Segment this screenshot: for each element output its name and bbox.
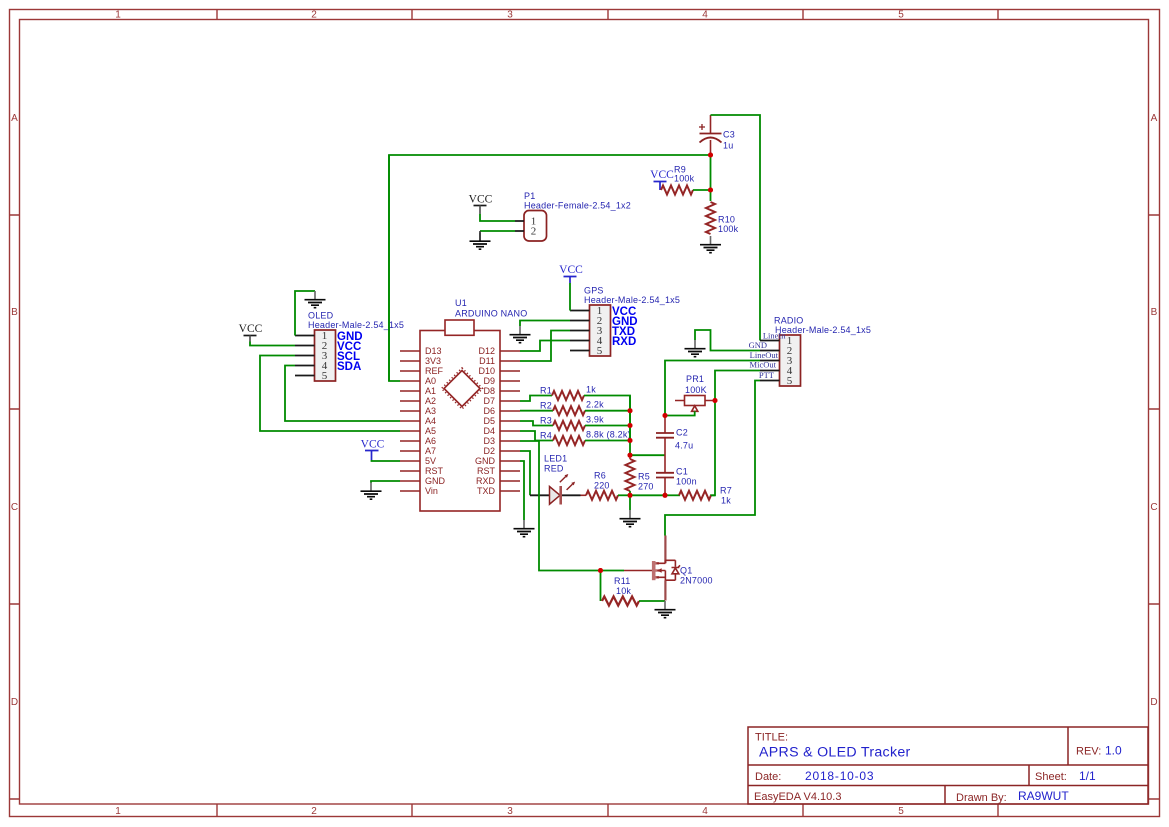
svg-text:GND: GND bbox=[425, 476, 446, 486]
svg-text:1: 1 bbox=[115, 10, 121, 21]
resistor R2 bbox=[553, 406, 585, 415]
capacitor C3 bbox=[699, 115, 735, 155]
svg-text:2: 2 bbox=[531, 226, 537, 238]
svg-text:C: C bbox=[1150, 502, 1157, 513]
svg-text:RA9WUT: RA9WUT bbox=[1018, 789, 1069, 803]
svg-text:2.2k: 2.2k bbox=[586, 400, 604, 410]
junction gate/R11 node bbox=[598, 568, 603, 573]
U1 crystal/IC diamond bbox=[442, 368, 483, 409]
svg-text:D13: D13 bbox=[425, 346, 442, 356]
svg-text:10k: 10k bbox=[616, 586, 631, 596]
wire U1 left GND bbox=[371, 481, 400, 483]
wire D6 to R2 bbox=[520, 410, 553, 412]
wire OLED pin1 to ground bbox=[295, 291, 315, 336]
header P1 bbox=[515, 191, 631, 241]
junction at R9/R10 node bbox=[708, 188, 713, 193]
svg-text:Sheet:: Sheet: bbox=[1035, 771, 1067, 783]
junction C1 bottom bbox=[663, 493, 668, 498]
svg-text:4: 4 bbox=[702, 806, 708, 817]
ground below GPS pin2 bbox=[510, 326, 531, 343]
svg-text:A2: A2 bbox=[425, 396, 436, 406]
ruler ticks left bbox=[10, 215, 20, 799]
svg-text:4: 4 bbox=[702, 10, 708, 21]
svg-text:PR1: PR1 bbox=[686, 374, 704, 384]
svg-text:B: B bbox=[1151, 307, 1158, 318]
svg-text:Header-Male-2.54_1x5: Header-Male-2.54_1x5 bbox=[775, 325, 871, 335]
svg-text:Drawn By:: Drawn By: bbox=[956, 792, 1007, 804]
svg-text:RST: RST bbox=[477, 466, 496, 476]
VCC flag above GPS bbox=[559, 264, 583, 283]
svg-text:R3: R3 bbox=[540, 416, 552, 426]
ground below R10 bbox=[700, 236, 721, 253]
svg-text:220: 220 bbox=[594, 481, 610, 491]
wire OLED pin4 SDA to A4 bbox=[285, 366, 400, 422]
svg-text:RADIO: RADIO bbox=[774, 316, 804, 326]
wire P1 pin1 to VCC bbox=[480, 214, 515, 221]
header RADIO bbox=[760, 316, 871, 388]
svg-text:D: D bbox=[11, 697, 18, 708]
svg-text:GND: GND bbox=[475, 456, 496, 466]
svg-text:RED: RED bbox=[544, 464, 564, 474]
svg-text:3: 3 bbox=[507, 806, 513, 817]
svg-text:VCC: VCC bbox=[559, 264, 583, 276]
potentiometer PR1 bbox=[675, 374, 714, 411]
ground below U1 right GND bbox=[514, 520, 535, 537]
wire R3 to bus node bbox=[585, 411, 630, 426]
wire GPS pin4 RXD to D12 bbox=[520, 341, 570, 352]
wire RADIO pin4 MicOut down to R7 bbox=[710, 371, 760, 496]
junction R5 bottom bbox=[628, 493, 633, 498]
resistor R5 bbox=[626, 455, 654, 495]
title block outline bbox=[748, 727, 1148, 804]
wire RADIO pin3 LineOut down to C2 node bbox=[665, 361, 760, 416]
svg-text:D10: D10 bbox=[478, 366, 495, 376]
svg-text:270: 270 bbox=[638, 482, 654, 492]
wire D4 to R4 bbox=[520, 431, 553, 441]
wire D5 to R3 bbox=[520, 421, 553, 426]
svg-text:R2: R2 bbox=[540, 401, 552, 411]
svg-text:5: 5 bbox=[322, 370, 328, 382]
svg-text:2: 2 bbox=[311, 806, 317, 817]
junction R2 node bbox=[628, 408, 633, 413]
svg-text:ARDUINO NANO: ARDUINO NANO bbox=[455, 309, 527, 319]
svg-text:1u: 1u bbox=[723, 141, 733, 151]
svg-text:2N7000: 2N7000 bbox=[680, 576, 713, 586]
svg-text:A: A bbox=[1151, 113, 1158, 124]
svg-text:1/1: 1/1 bbox=[1079, 769, 1096, 783]
wire R5 top to C1/C2 mid bbox=[630, 454, 665, 456]
ground above OLED bbox=[305, 291, 326, 308]
ruler letters left bbox=[11, 113, 18, 708]
svg-text:R5: R5 bbox=[638, 472, 650, 482]
svg-text:R4: R4 bbox=[540, 431, 552, 441]
VCC flag at P1 (black) bbox=[469, 194, 493, 215]
wire D7 to R1 bbox=[520, 396, 552, 402]
svg-text:5: 5 bbox=[787, 375, 793, 387]
wire C3 top to LineIn riser bbox=[711, 115, 761, 341]
wire bus vertical overdraw bbox=[629, 396, 631, 441]
wire GPS pin3 TXD to D11 bbox=[520, 331, 570, 362]
VCC flag at OLED pin2 (black) bbox=[239, 323, 263, 342]
wire GPS pin1 to VCC bbox=[569, 283, 571, 311]
svg-text:R7: R7 bbox=[720, 486, 732, 496]
svg-text:D4: D4 bbox=[483, 426, 495, 436]
resistor R7 bbox=[679, 491, 711, 500]
svg-text:R10: R10 bbox=[718, 215, 735, 225]
capacitor C2 bbox=[656, 416, 693, 473]
wire R9 to node bbox=[693, 189, 711, 191]
svg-text:A3: A3 bbox=[425, 406, 436, 416]
svg-text:LED1: LED1 bbox=[544, 454, 567, 464]
svg-text:A1: A1 bbox=[425, 386, 436, 396]
wire P1 pin2 to ground bbox=[480, 230, 515, 232]
svg-text:GPS: GPS bbox=[584, 286, 604, 296]
ruler numbers top bbox=[115, 10, 904, 21]
svg-text:C3: C3 bbox=[723, 130, 735, 140]
svg-text:1: 1 bbox=[115, 806, 121, 817]
svg-text:8.8k (8.2k): 8.8k (8.2k) bbox=[586, 430, 631, 440]
svg-text:TXD: TXD bbox=[477, 486, 496, 496]
wire RADIO pin5 PTT down bbox=[665, 381, 760, 536]
wire D3 to Q1 gate bbox=[520, 441, 624, 571]
svg-text:3.9k: 3.9k bbox=[586, 415, 604, 425]
svg-text:A: A bbox=[11, 113, 18, 124]
wire gate node down to R11 bbox=[600, 571, 602, 602]
title block row lines bbox=[748, 727, 1148, 804]
wire OLED pin2 to VCC bbox=[250, 342, 295, 346]
junction R4 node bbox=[628, 438, 633, 443]
resistor R4 bbox=[553, 436, 585, 445]
svg-text:LineIn: LineIn bbox=[763, 330, 786, 340]
svg-text:D6: D6 bbox=[483, 406, 495, 416]
svg-text:D5: D5 bbox=[483, 416, 495, 426]
ruler ticks bottom bbox=[217, 805, 998, 817]
svg-text:5V: 5V bbox=[425, 456, 436, 466]
svg-text:OLED: OLED bbox=[308, 311, 334, 321]
svg-text:Q1: Q1 bbox=[680, 566, 692, 576]
ground below P1 bbox=[479, 231, 481, 241]
wire U1 right GND pin to ground bbox=[520, 461, 524, 520]
svg-text:5: 5 bbox=[597, 345, 603, 357]
header OLED bbox=[295, 311, 404, 383]
wire R4 to bus node bbox=[585, 426, 630, 441]
svg-text:PTT: PTT bbox=[759, 370, 775, 380]
svg-text:3V3: 3V3 bbox=[425, 356, 441, 366]
svg-text:VCC: VCC bbox=[361, 439, 385, 451]
svg-text:Vin: Vin bbox=[425, 486, 438, 496]
wire PR1 wiper to C2 node bbox=[665, 411, 695, 415]
wire R11 to Q1 source bbox=[639, 600, 665, 602]
ground at U1 left GND bbox=[361, 483, 382, 500]
svg-text:2018-10-03: 2018-10-03 bbox=[805, 769, 874, 783]
transistor Q1 2N7000 bbox=[624, 536, 713, 601]
svg-text:D7: D7 bbox=[483, 396, 495, 406]
resistor R9 bbox=[661, 186, 693, 195]
junction PR1 right to MicOut riser bbox=[713, 398, 718, 403]
svg-text:D2: D2 bbox=[483, 446, 495, 456]
wire OLED pin3 SCL to A5 bbox=[260, 356, 400, 432]
svg-text:EasyEDA V4.10.3: EasyEDA V4.10.3 bbox=[754, 791, 841, 803]
svg-text:4.7u: 4.7u bbox=[675, 441, 693, 451]
svg-text:B: B bbox=[11, 307, 18, 318]
wire C1 bottom to R7 bbox=[665, 494, 680, 496]
ruler letters right bbox=[1150, 113, 1157, 708]
svg-text:Date:: Date: bbox=[755, 771, 781, 783]
svg-text:A4: A4 bbox=[425, 416, 436, 426]
svg-text:100K: 100K bbox=[685, 385, 707, 395]
header GPS bbox=[570, 286, 680, 358]
wire A0 to top net bbox=[389, 155, 711, 381]
wire R7 right to MicOut riser bbox=[711, 494, 715, 496]
ruler ticks top bbox=[217, 10, 998, 20]
svg-text:R6: R6 bbox=[594, 471, 606, 481]
junction at C3 bottom bbox=[708, 153, 713, 158]
wire R5 bottom to C1 bottom bbox=[630, 494, 665, 496]
svg-text:Header-Female-2.54_1x2: Header-Female-2.54_1x2 bbox=[524, 201, 631, 211]
svg-text:P1: P1 bbox=[524, 191, 535, 201]
svg-text:5: 5 bbox=[898, 806, 904, 817]
resistor R1 bbox=[552, 391, 584, 400]
svg-text:C1: C1 bbox=[676, 467, 688, 477]
svg-text:2: 2 bbox=[311, 10, 317, 21]
resistor R11 bbox=[602, 597, 639, 606]
junction at C2 top node bbox=[663, 413, 668, 418]
svg-text:A6: A6 bbox=[425, 436, 436, 446]
ruler ticks right bbox=[1149, 215, 1160, 799]
svg-text:APRS & OLED Tracker: APRS & OLED Tracker bbox=[759, 745, 911, 761]
svg-text:D8: D8 bbox=[483, 386, 495, 396]
svg-text:100k: 100k bbox=[674, 174, 695, 184]
wire R1 to bus node bbox=[584, 396, 630, 411]
svg-text:RXD: RXD bbox=[612, 336, 636, 348]
svg-text:VCC: VCC bbox=[469, 194, 493, 206]
svg-text:D12: D12 bbox=[478, 346, 495, 356]
junction dots overdraw bbox=[598, 153, 718, 574]
svg-text:VCC: VCC bbox=[650, 169, 674, 181]
wire R2 to bus node bbox=[585, 410, 630, 412]
svg-text:3: 3 bbox=[507, 10, 513, 21]
svg-text:D: D bbox=[1150, 697, 1157, 708]
wire A0 net junction to R9/R10 node bbox=[710, 155, 712, 190]
svg-text:C2: C2 bbox=[676, 428, 688, 438]
wire bus node down to R5 bbox=[629, 441, 631, 456]
svg-text:D11: D11 bbox=[479, 356, 495, 366]
svg-text:SDA: SDA bbox=[337, 361, 361, 373]
capacitor C1 bbox=[656, 467, 697, 496]
svg-text:R1: R1 bbox=[540, 386, 552, 396]
svg-text:D3: D3 bbox=[483, 436, 495, 446]
svg-text:100n: 100n bbox=[676, 477, 697, 487]
svg-text:REV:: REV: bbox=[1076, 746, 1101, 758]
wire R5 bottom to ground bbox=[629, 495, 631, 510]
svg-text:A7: A7 bbox=[425, 446, 436, 456]
wire D2 to LED bbox=[520, 451, 530, 495]
ground at RADIO GND bbox=[685, 340, 706, 357]
svg-text:REF: REF bbox=[425, 366, 444, 376]
svg-text:GND: GND bbox=[749, 340, 767, 350]
wire RADIO pin2 GND jog bbox=[695, 330, 760, 351]
svg-text:Header-Male-2.54_1x5: Header-Male-2.54_1x5 bbox=[584, 295, 680, 305]
svg-text:VCC: VCC bbox=[239, 323, 263, 335]
LED LED1 bbox=[530, 454, 586, 505]
svg-text:1k: 1k bbox=[721, 496, 731, 506]
svg-text:5: 5 bbox=[898, 10, 904, 21]
svg-text:RXD: RXD bbox=[476, 476, 496, 486]
arduino nano U1 bbox=[400, 298, 527, 511]
ground below R5 bbox=[620, 510, 641, 527]
resistor R10 bbox=[706, 190, 739, 234]
junction R5 top bbox=[628, 453, 633, 458]
svg-text:C: C bbox=[11, 502, 18, 513]
svg-text:1.0: 1.0 bbox=[1105, 744, 1122, 758]
svg-text:TITLE:: TITLE: bbox=[755, 732, 788, 744]
svg-text:1k: 1k bbox=[586, 385, 596, 395]
resistor R6 bbox=[586, 491, 618, 500]
svg-text:A5: A5 bbox=[425, 426, 436, 436]
VCC flag at R9 bbox=[650, 169, 674, 190]
wire A0 riser overdraw bbox=[388, 155, 390, 381]
resistor R3 bbox=[553, 421, 585, 430]
svg-text:D9: D9 bbox=[483, 376, 495, 386]
wire GPS pin2 to ground bbox=[520, 321, 570, 327]
wire 5V VCC drop bbox=[372, 460, 401, 461]
ruler numbers bottom bbox=[115, 806, 904, 817]
svg-text:RST: RST bbox=[425, 466, 444, 476]
svg-text:U1: U1 bbox=[455, 298, 467, 308]
VCC flag at 5V bbox=[361, 439, 385, 461]
junction R3 node bbox=[628, 423, 633, 428]
svg-text:A0: A0 bbox=[425, 376, 436, 386]
wire R6 to R5 bottom bbox=[618, 494, 630, 496]
svg-text:100k: 100k bbox=[718, 224, 739, 234]
ground below Q1 bbox=[655, 601, 676, 618]
svg-text:R11: R11 bbox=[614, 576, 630, 586]
